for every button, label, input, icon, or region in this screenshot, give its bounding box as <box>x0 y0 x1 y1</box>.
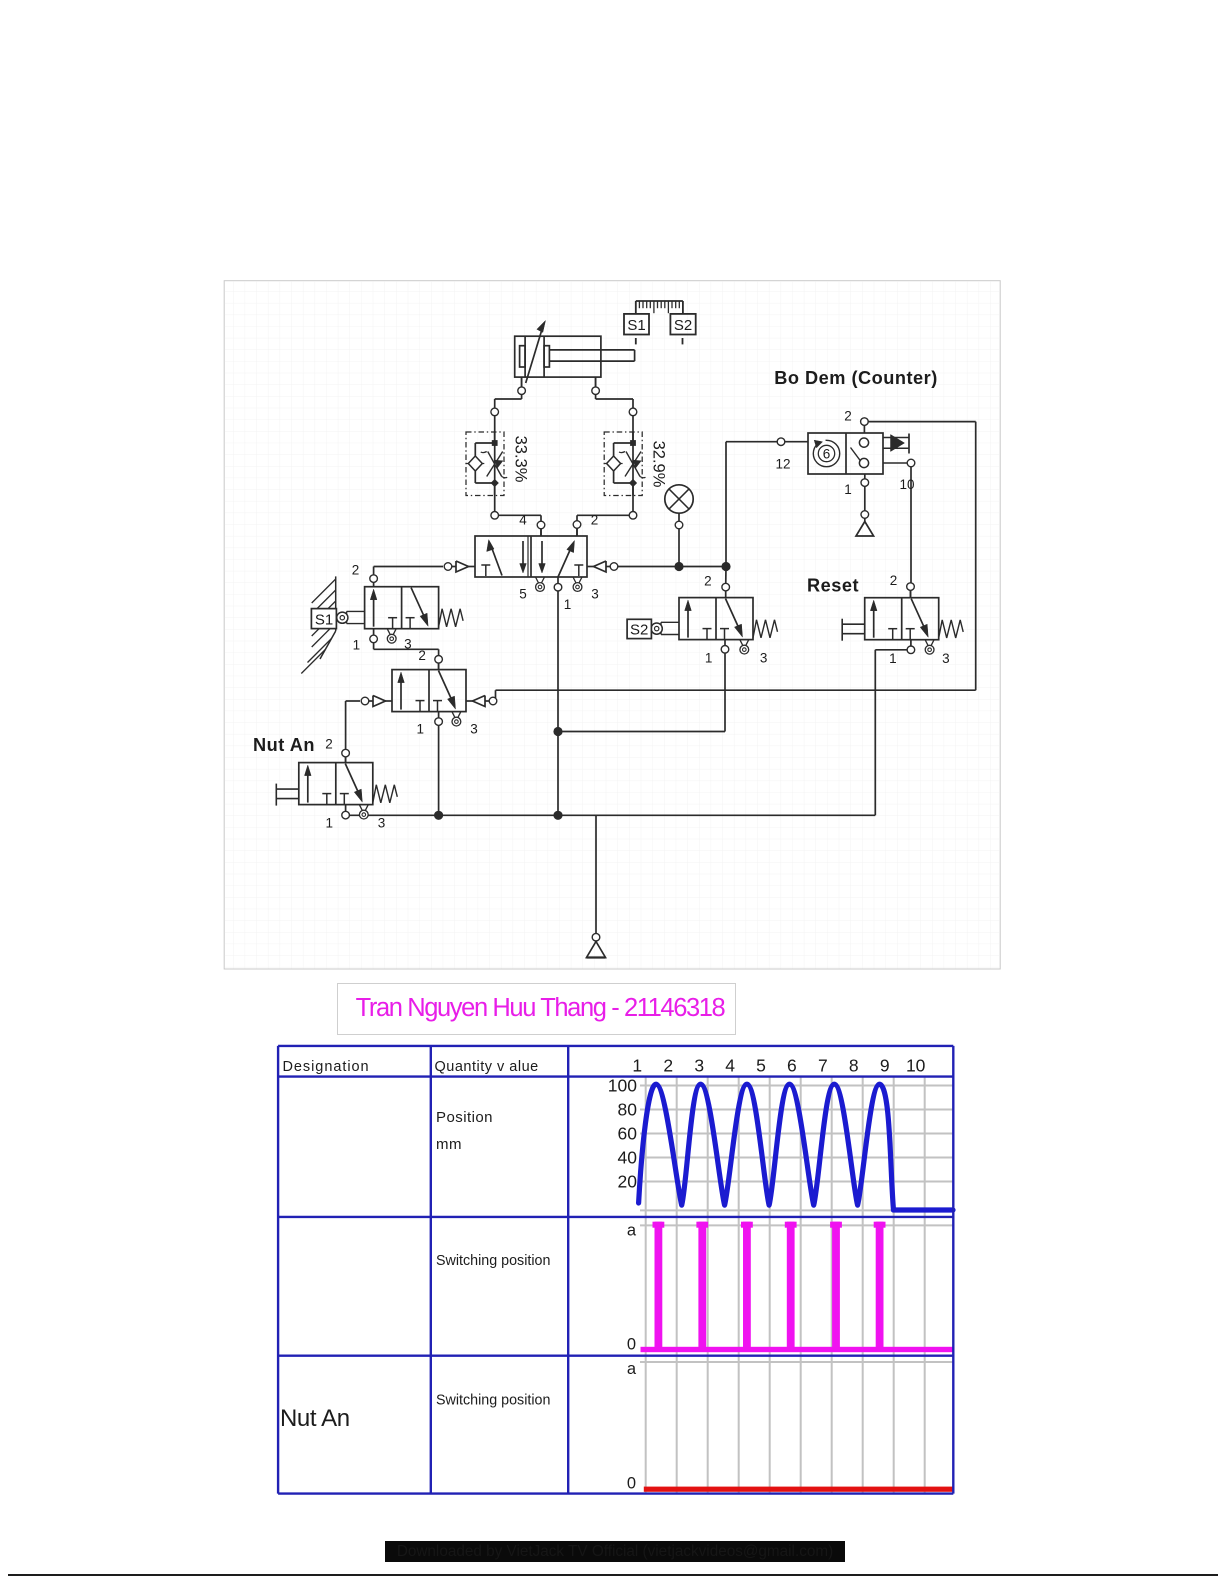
chart time axis labels <box>632 1055 925 1075</box>
wire junction to S2 valve port 2 <box>725 567 727 588</box>
designation Nut An <box>280 1405 350 1432</box>
node right jog <box>629 408 637 416</box>
student name banner <box>337 983 736 1035</box>
wire valve V2 port 2 stub <box>438 659 440 669</box>
sensor label S2 <box>670 314 695 345</box>
V2 port labels <box>417 648 478 737</box>
wire cylinder left port to left flow control <box>495 377 522 443</box>
Reset valve (3/2 push button) <box>842 591 963 654</box>
result table borders <box>278 1046 953 1494</box>
watermark bar <box>385 1541 845 1562</box>
wall / stop with hatching <box>301 576 335 673</box>
node source <box>592 933 600 941</box>
Nut An valve (3/2 push button) <box>276 757 397 819</box>
junction V2 port1 / bus node <box>434 811 443 820</box>
wire valve V2 port 1 down to supply bus <box>438 722 440 816</box>
flow control valve right (32.9%) <box>604 432 667 496</box>
node counter port 10 <box>907 459 915 467</box>
junction lamp/pilot node <box>674 562 683 571</box>
chart grid row 1 <box>640 1077 953 1217</box>
svg-text:10: 10 <box>906 1055 926 1075</box>
wire indicator lamp drop <box>678 529 680 567</box>
node left jog <box>491 408 499 416</box>
wire 5/2 valve right pilot to S2/counter junction <box>618 566 726 568</box>
wire S2 valve port 1 down and left to node <box>558 649 725 731</box>
wire 5/2 valve port 1 down to supply bus <box>557 591 559 815</box>
svg-text:0: 0 <box>627 1475 636 1493</box>
bottom rule <box>8 1574 1218 1576</box>
sensor label S1 <box>624 314 649 345</box>
S1 valve label box <box>311 609 336 629</box>
node S2 port 2 <box>722 583 730 591</box>
wire cylinder right port to right flow control <box>596 377 633 443</box>
node counter port 12 <box>777 438 785 446</box>
ruler / measuring scale <box>636 301 683 314</box>
junction 5/2 port1 / bus node <box>553 811 562 820</box>
node 5/2 port 2 <box>573 521 581 529</box>
node Nut An port 2 <box>342 749 350 757</box>
S1 valve port labels <box>352 562 412 652</box>
chart grid row 3 <box>640 1356 953 1494</box>
node counter port 1 <box>861 479 869 487</box>
row labels <box>436 1109 493 1153</box>
wire supply bus to source drop <box>595 815 597 933</box>
counter exhaust silencer <box>856 518 874 536</box>
wire Reset valve port 1 to supply bus <box>875 650 907 816</box>
valve V2 (3/2 double pilot) <box>361 663 497 726</box>
svg-text:3: 3 <box>694 1055 704 1075</box>
counter Z1 (preset counter 6) <box>785 425 909 478</box>
svg-text:80: 80 <box>618 1100 638 1120</box>
wire right rail to valve V2 right pilot <box>496 690 976 699</box>
Nut An port labels <box>325 737 385 831</box>
5/2 way valve V1 <box>444 529 618 592</box>
svg-text:Quantity v alue: Quantity v alue <box>435 1059 539 1075</box>
y axis labels row 1 <box>608 1076 637 1192</box>
Nut An label <box>253 735 315 755</box>
node right flow out <box>629 512 637 520</box>
svg-text:9: 9 <box>880 1055 890 1075</box>
node counter port 2 <box>861 418 869 426</box>
wire S1 valve port 2 to 5/2 valve left pilot <box>374 567 443 579</box>
node left flow out <box>491 512 499 520</box>
svg-text:1: 1 <box>632 1055 642 1075</box>
node cylinder right port <box>592 387 600 395</box>
y axis labels row 2 <box>627 1222 637 1354</box>
svg-text:Switching position: Switching position <box>436 1253 550 1269</box>
Reset label <box>807 576 859 596</box>
wire Reset valve port 2 stub <box>910 587 912 598</box>
S2 valve label box <box>627 619 651 638</box>
svg-text:20: 20 <box>618 1172 638 1192</box>
svg-text:100: 100 <box>608 1076 637 1096</box>
Bo Dem (Counter) title <box>774 368 938 388</box>
wire counter port 10 to Reset valve port 2 <box>910 463 912 587</box>
node V2 port 2 <box>435 656 443 664</box>
counter port labels <box>775 409 914 498</box>
5/2 valve port labels <box>519 513 599 613</box>
svg-text:2: 2 <box>663 1055 673 1075</box>
valve S2 (3/2 roller with spring) <box>651 591 777 654</box>
y axis labels row 3 <box>627 1360 637 1493</box>
chart grid row 2 <box>640 1217 953 1356</box>
S2 valve port labels <box>704 574 767 666</box>
switching pulses S1 trace <box>641 1222 954 1353</box>
Reset valve port labels <box>889 573 950 666</box>
svg-text:7: 7 <box>818 1055 828 1075</box>
limit valve S1 (3/2 roller, actuated) <box>337 582 463 643</box>
wire counter port 2 to right rail <box>864 422 975 691</box>
svg-text:40: 40 <box>618 1148 638 1168</box>
svg-text:60: 60 <box>618 1124 638 1144</box>
svg-text:Nut An: Nut An <box>280 1405 350 1432</box>
table header labels <box>283 1059 539 1075</box>
svg-text:a: a <box>627 1360 637 1378</box>
supply bus wire <box>346 814 876 816</box>
node cylinder left port <box>518 387 526 395</box>
svg-text:8: 8 <box>849 1055 859 1075</box>
svg-text:Position: Position <box>436 1109 493 1126</box>
junction counter-12/S2 node <box>721 562 730 571</box>
node 5/2 port 4 <box>537 521 545 529</box>
source exhaust (bottom) <box>587 942 606 958</box>
svg-text:mm: mm <box>436 1136 462 1153</box>
node Reset port 2 <box>907 583 915 591</box>
wire counter port 1 to exhaust <box>864 483 866 511</box>
wire valve V2 left pilot to Nut An port 2 <box>346 701 360 753</box>
wire left flow control to valve port 4 <box>495 483 541 536</box>
node S1 port 2 <box>370 575 378 583</box>
junction S2 return node <box>553 727 562 736</box>
svg-text:5: 5 <box>756 1055 766 1075</box>
position trace curve <box>639 1084 953 1210</box>
svg-text:0: 0 <box>627 1336 636 1354</box>
Nut An switching trace (flat 0) <box>644 1487 953 1492</box>
wire right flow control to valve port 2 <box>577 483 633 536</box>
indicator lamp <box>665 485 693 529</box>
schematic frame <box>224 281 1000 969</box>
wire Nut An port 2 stub <box>345 753 347 763</box>
wire S1 valve port 1 to valve V2 port 2 <box>374 639 439 659</box>
cylinder A (double-acting) <box>515 321 635 387</box>
svg-text:6: 6 <box>787 1055 797 1075</box>
wire counter port 12 to junction <box>726 442 777 567</box>
svg-text:Designation: Designation <box>283 1059 370 1075</box>
flow control valve left (33.3%) <box>466 432 530 496</box>
svg-text:a: a <box>627 1222 637 1240</box>
svg-text:Switching position: Switching position <box>436 1393 550 1409</box>
node counter exhaust <box>861 511 869 519</box>
svg-text:4: 4 <box>725 1055 735 1075</box>
